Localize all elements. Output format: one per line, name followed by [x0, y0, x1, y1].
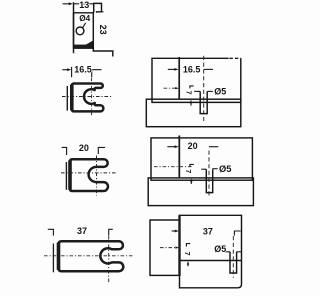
- svg-text:20: 20: [188, 141, 198, 151]
- clip C2 dimension 20 left bracket: [62, 147, 67, 155]
- svg-text:16.5: 16.5: [183, 65, 201, 75]
- panel D3 back sheet outline: [150, 220, 180, 275]
- panel D3 slot outline: [230, 252, 237, 273]
- panel D3 dimension 37 right bracket: [234, 231, 240, 236]
- panel D3 dimension 37 arrow: [172, 230, 176, 232]
- clip C1 outline: [72, 84, 104, 112]
- panel D1 dimension 7 bracket: [190, 86, 194, 89]
- clip C1 horizontal centerline: [62, 96, 112, 98]
- panel D1 upper sheet outline: [152, 58, 241, 102]
- part A top-view left edge / extension line: [73, 2, 75, 53]
- panel D3 slot vertical centerline: [232, 236, 234, 278]
- svg-text:Ø5: Ø5: [219, 163, 232, 174]
- panel D1 dimension 16.5 arrow: [168, 68, 176, 70]
- panel D1 flange edge: [178, 57, 180, 99]
- clip C1 dimension 16.5 right bracket: [92, 70, 102, 77]
- panel D3 flange edge (thick): [178, 215, 180, 276]
- hole Ø4 circle: [76, 27, 84, 35]
- clip C3 back leaf edge: [52, 244, 54, 273]
- hole Ø4 leader line: [83, 23, 86, 28]
- panel D1 upper sheet hidden top edge (dashed): [230, 57, 241, 59]
- svg-text:7: 7: [184, 169, 191, 173]
- panel D3 slot width ticks (Ø5): [225, 251, 230, 253]
- svg-text:13: 13: [79, 0, 89, 10]
- clip C2 horizontal centerline: [61, 172, 117, 174]
- clip C2 vertical centerline: [96, 156, 98, 196]
- part A body outline: [74, 13, 94, 49]
- clip C3 dimension 37 right bracket: [109, 229, 113, 235]
- clip C3 folded left edge (thick): [57, 243, 61, 270]
- part A folded bottom (thick band with wedge): [74, 41, 94, 49]
- clip C1 vertical centerline: [91, 78, 93, 117]
- part A bottom step edge: [93, 44, 113, 57]
- panel D1 dimension 16.5 right bracket: [204, 68, 213, 70]
- panel D3 front sheet fold edge: [180, 260, 242, 262]
- panel D2 flange edge: [178, 136, 180, 178]
- dimension 13 arrow: [69, 2, 73, 5]
- panel D2 slot outline: [206, 169, 212, 192]
- panel D3 dimension 7 lower arrow: [187, 261, 189, 265]
- part A bent tab (top right): [94, 3, 102, 12]
- svg-text:Ø5: Ø5: [214, 244, 226, 254]
- clip C1 folded left edge (thick): [70, 85, 74, 111]
- clip C3 outline: [59, 241, 124, 271]
- panel D2 lower sheet outline: [148, 178, 253, 206]
- clip C3 vertical centerline: [108, 236, 110, 284]
- panel D2 upper sheet outline: [151, 138, 252, 180]
- svg-text:16.5: 16.5: [74, 65, 92, 75]
- svg-text:7: 7: [183, 252, 190, 256]
- panel D3 front sheet outline: [180, 215, 242, 287]
- svg-text:20: 20: [79, 143, 89, 153]
- panel D2 hole horizontal centerline: [154, 166, 194, 168]
- panel D1 dimension 7 lower arrow: [190, 100, 192, 104]
- svg-text:7: 7: [185, 91, 192, 95]
- panel D3 hole horizontal centerline: [160, 247, 176, 249]
- panel D1 hole horizontal centerline: [164, 87, 177, 89]
- panel D2 slot vertical centerline: [208, 151, 210, 199]
- panel D1 lower sheet outline: [146, 99, 241, 127]
- clip C2 outline: [70, 159, 108, 191]
- dimension 23 extension tick: [102, 11, 104, 13]
- clip C2 back leaf edge: [65, 162, 67, 190]
- panel D2 dimension 20 right bracket: [209, 146, 218, 148]
- svg-text:37: 37: [77, 226, 87, 236]
- panel D1 slot width ticks (Ø5): [194, 90, 200, 92]
- svg-text:37: 37: [203, 226, 213, 236]
- panel D2 slot width ticks (Ø5): [201, 168, 206, 170]
- panel D1 slot outline: [200, 91, 207, 113]
- svg-text:Ø4: Ø4: [79, 14, 90, 23]
- svg-text:23: 23: [98, 25, 108, 35]
- panel D2 dimension 20 arrow: [167, 146, 175, 148]
- panel D2 dimension 7 bracket: [190, 164, 194, 167]
- panel D2 dimension 7 lower arrow: [190, 178, 192, 182]
- clip C1 back leaf edge: [66, 86, 68, 111]
- clip C3 dimension 37 left bracket: [48, 229, 54, 235]
- clip C1 dimension 16.5 left bracket with arrow: [62, 69, 69, 71]
- clip C2 folded left edge (thick): [68, 160, 72, 190]
- panel D1 slot vertical centerline: [203, 56, 205, 121]
- svg-text:Ø5: Ø5: [214, 86, 226, 96]
- dimension 13 line: [74, 3, 94, 5]
- clip C3 horizontal centerline: [44, 255, 133, 257]
- panel D3 dimension 7 bracket: [186, 244, 190, 247]
- clip C2 dimension 20 right bracket: [98, 147, 105, 154]
